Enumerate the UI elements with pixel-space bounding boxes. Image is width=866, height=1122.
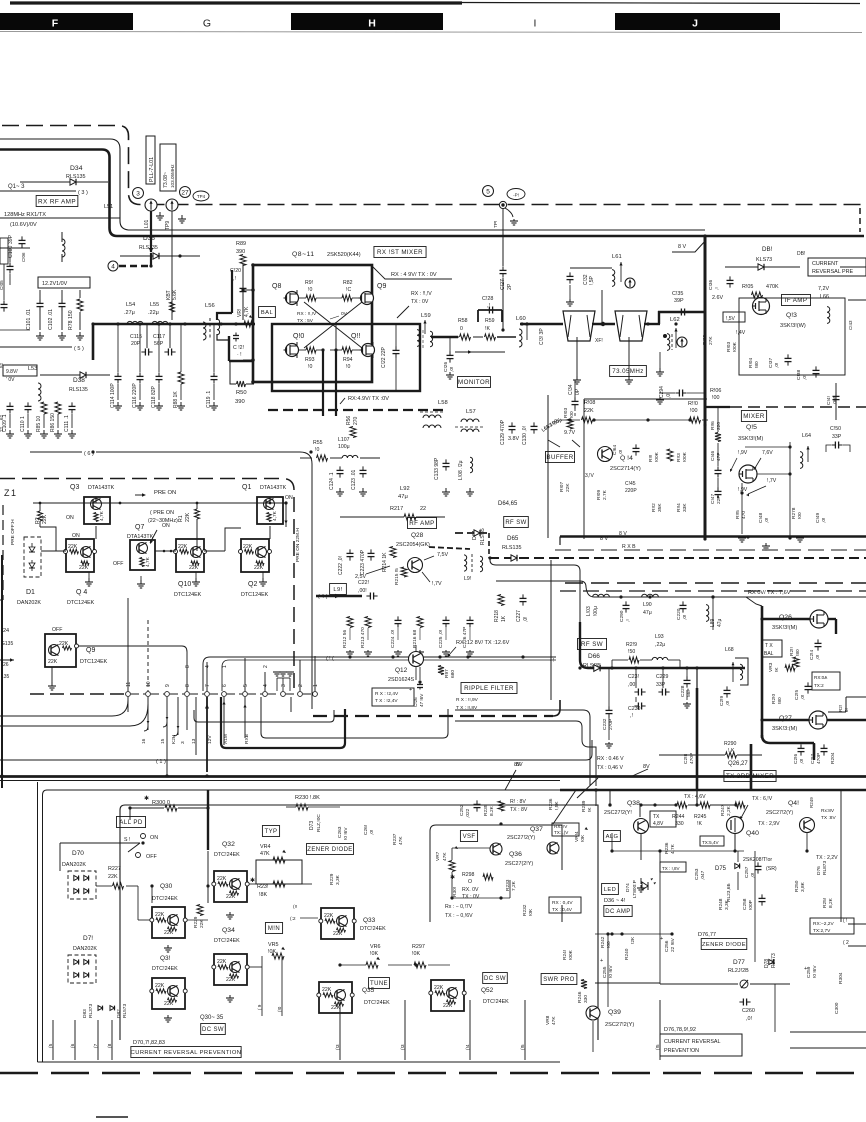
svg-text:L55: L55 [150,302,159,308]
svg-text:2.7K: 2.7K [602,489,608,500]
svg-text:8V: 8V [643,764,650,770]
svg-text:L64: L64 [802,433,811,439]
svg-text:R9!: R9! [305,280,313,286]
svg-text:8.2K: 8.2K [489,805,495,816]
svg-text:0: 0 [460,326,463,332]
svg-text:,!: ,! [233,276,236,282]
svg-text:R55: R55 [313,440,323,446]
svg-text:R2!0: R2!0 [771,694,777,704]
svg-text:!00K: !00K [732,341,738,352]
svg-text:R2!!: R2!! [789,647,795,656]
svg-text:47K: 47K [551,1016,557,1025]
svg-text:!80: !80 [754,361,760,368]
svg-text:OFF: OFF [146,854,157,860]
svg-text:,0!: ,0! [725,701,731,706]
svg-text:R250: R250 [794,880,800,892]
svg-text:3: 3 [180,741,186,744]
svg-text:390: 390 [236,249,245,255]
svg-text:22K: 22K [185,512,191,522]
svg-text:‹ !: ‹ ! [550,658,554,664]
svg-text:16: 16 [141,738,147,744]
svg-text:TX : 5V: TX : 5V [297,318,314,324]
svg-text:R236: R236 [664,842,670,854]
svg-text:R!04: R!04 [748,358,754,368]
svg-text:D7!: D7! [83,935,93,942]
svg-text:Rх:8V: Rх:8V [821,808,835,814]
svg-text:L!03: L!03 [586,606,592,616]
svg-text:C224 .0!: C224 .0! [390,630,396,648]
svg-text:470P: 470P [816,753,822,764]
svg-text:R246: R246 [577,991,583,1003]
svg-text:M!N: M!N [268,926,280,932]
svg-text:R97: R97 [444,669,450,678]
svg-text:2SC2054(GK): 2SC2054(GK) [396,542,430,548]
svg-text:!00μ: !00μ [593,606,599,616]
svg-text:R88 1K: R88 1K [173,391,179,408]
svg-text:R247: R247 [720,804,726,816]
svg-text:' 0V: ' 0V [6,377,15,383]
svg-text:L58: L58 [438,400,448,406]
svg-text:103.05MHz: 103.05MHz [170,164,175,188]
svg-text:3: 3 [136,190,140,197]
svg-text:MONITOR: MONITOR [458,379,490,386]
svg-text:TX : 0,4V: TX : 0,4V [552,907,573,913]
svg-text:L59: L59 [421,313,431,319]
svg-text:R!!0: R!!0 [688,401,698,407]
svg-text:C!48: C!48 [758,513,764,523]
svg-text:3,3K: 3,3K [335,874,341,885]
svg-text:A1M: A1M [223,734,229,744]
svg-text:4,7K: 4,7K [670,843,676,854]
svg-text:( 5 ): ( 5 ) [74,346,84,352]
svg-text:TX : 2,9V: TX : 2,9V [758,821,780,827]
svg-text:T X: T X [765,643,773,649]
svg-text:R!07: R!07 [559,482,565,492]
svg-text:RX:.!V: RX:.!V [554,824,568,829]
svg-text:REVERSAL PRE: REVERSAL PRE [812,269,854,275]
svg-text:R216 68: R216 68 [412,630,418,648]
svg-text:,!: ,! [714,287,720,290]
svg-text:H: H [368,18,376,30]
svg-text:2.6V: 2.6V [712,295,723,301]
svg-text:D36 ~ 4!: D36 ~ 4! [604,898,626,904]
svg-text:R230 !.8K: R230 !.8K [295,795,320,801]
svg-text:1: 1 [222,665,228,668]
svg-text:DC SW: DC SW [484,976,506,982]
svg-text:128MHz RX1/TX: 128MHz RX1/TX [4,212,46,218]
svg-text:L68: L68 [725,647,734,653]
svg-text:R304: R304 [838,972,844,984]
svg-text:C100 39P: C100 39P [8,234,14,258]
svg-text:TX : !,8V: TX : !,8V [662,866,680,871]
svg-text:22K: 22K [48,659,58,665]
svg-text:22K: 22K [79,565,89,571]
svg-text:R232: R232 [522,904,528,916]
svg-text:✱: ✱ [144,795,149,802]
svg-text:C!36: C!36 [708,280,714,290]
svg-text:R93: R93 [305,357,315,363]
svg-text:ON: ON [162,523,170,529]
svg-text:-P!: -P! [513,193,519,198]
svg-text:6: 6 [222,684,228,687]
svg-text:RLS135: RLS135 [69,387,88,393]
svg-text:2SC27!2(Y): 2SC27!2(Y) [766,810,793,816]
svg-text:,0!: ,0! [523,616,529,622]
svg-text:RF AMP: RF AMP [409,520,434,527]
svg-text:Q30: Q30 [160,883,173,890]
svg-text:CURRENT: CURRENT [812,261,839,267]
svg-text:DTC!24EK: DTC!24EK [360,926,386,932]
svg-text:!0K: !0K [580,834,586,842]
svg-text:C26!: C26! [363,825,369,835]
svg-text:DTC124EK: DTC124EK [80,659,108,665]
svg-text:+: + [600,958,603,964]
svg-text:C255: C255 [602,966,608,978]
svg-text:Q9: Q9 [377,283,386,290]
svg-text:L51: L51 [104,204,113,210]
svg-text:47μ: 47μ [717,618,723,627]
svg-text:3SK!3!(M): 3SK!3!(M) [738,436,763,442]
svg-text:8: 8 [185,684,191,687]
svg-text:9: 9 [165,684,171,687]
svg-text:Q!!: Q!! [351,333,360,340]
svg-text:RX !ST MIXER: RX !ST MIXER [377,249,423,256]
svg-text:Q3: Q3 [70,484,79,491]
svg-text:C2!9: C2!9 [719,696,725,706]
svg-text:L107: L107 [338,437,350,443]
svg-text:C!05: C!05 [0,280,4,290]
svg-text:R85 10: R85 10 [36,416,42,432]
svg-text:,0!: ,0! [821,518,827,523]
svg-text:Q !4: Q !4 [620,455,633,462]
svg-text:8 V: 8 V [619,531,627,537]
svg-text:4,7K: 4,7K [145,556,151,567]
svg-text:Q39: Q39 [608,1009,621,1016]
svg-text:DTC124EK: DTC124EK [241,592,269,598]
svg-text:R278: R278 [791,507,797,519]
svg-text:R204: R204 [830,752,836,764]
svg-text:( 9: ( 9 [257,1004,262,1010]
svg-text:C258: C258 [742,898,748,910]
svg-text:OFF: OFF [52,627,62,633]
svg-text:20P: 20P [131,341,141,347]
svg-text:C110 1: C110 1 [20,416,26,432]
svg-text:330: 330 [583,995,589,1003]
svg-text:2,2K: 2,2K [726,805,732,816]
svg-text:4: 4 [111,263,115,270]
svg-text:R237: R237 [392,833,398,845]
svg-text:R229: R229 [329,873,335,885]
svg-text:220P: 220P [625,488,637,494]
svg-text:!,5K: !,5K [554,801,560,810]
svg-text:R!!4: R!!4 [676,503,682,512]
svg-text:C!43: C!43 [848,320,853,330]
svg-text:(!4: (!4 [465,1044,471,1050]
svg-text:DB!: DB! [762,246,773,253]
svg-text:L93: L93 [655,634,664,640]
svg-text:Q!3: Q!3 [786,312,797,319]
svg-text:C102 .01: C102 .01 [48,309,54,330]
svg-text:+: + [409,687,412,693]
svg-text:RF SW: RF SW [581,641,603,648]
svg-text:,00!: ,00! [628,682,637,688]
svg-text:RX : 0,4V: RX : 0,4V [552,900,573,906]
svg-text:73.08~: 73.08~ [163,172,169,188]
svg-text:Q52: Q52 [481,987,494,994]
svg-text:( 3 ): ( 3 ) [78,190,88,196]
svg-text:.22μ: .22μ [148,310,159,316]
svg-text:+: + [660,936,663,942]
svg-text:PRE ON: PRE ON [154,490,176,496]
svg-text:TX : 2,2V: TX : 2,2V [816,855,838,861]
svg-text:Q37: Q37 [530,826,543,833]
svg-text:✱: ✱ [250,877,255,884]
svg-text:D65: D65 [507,535,519,542]
svg-text:ON: ON [72,533,80,539]
svg-text:BAL: BAL [764,651,774,657]
svg-text:2SD1624S: 2SD1624S [388,677,414,683]
svg-text:RLS!35: RLS!35 [480,528,486,545]
svg-text:C2!6: C2!6 [793,754,799,764]
svg-text:R233: R233 [505,879,511,891]
svg-text:R249: R249 [809,797,814,808]
svg-text:R227: R227 [108,866,121,872]
svg-text:DTC124EK: DTC124EK [67,600,95,606]
svg-text:ON: ON [66,515,74,521]
svg-text:5.6K: 5.6K [172,289,178,300]
svg-text:4,8V: 4,8V [653,821,664,827]
svg-text:,0!: ,0! [682,615,688,620]
svg-text:R1: R1 [178,515,184,522]
svg-text:VR8: VR8 [545,1015,551,1025]
svg-text:!0K: !0K [370,951,378,957]
svg-text:C229: C229 [656,674,669,680]
svg-text:4,7K: 4,7K [272,510,278,521]
svg-text:!0: !0 [308,287,312,293]
svg-text:R!08: R!08 [584,400,595,406]
svg-text:1: 1 [313,684,319,687]
svg-text:R!03: R!03 [563,408,569,418]
svg-text:L61: L61 [612,254,622,260]
svg-text:!00: !00 [606,941,612,948]
svg-text:R297: R297 [412,944,425,950]
svg-text:C259: C259 [806,966,812,978]
svg-text:8 V: 8 V [678,244,686,250]
svg-text:RF SW: RF SW [505,520,526,526]
svg-text:,022: ,022 [465,808,471,818]
svg-text:L57: L57 [466,409,476,415]
svg-text:(8: (8 [107,1043,113,1048]
svg-text:C!49: C!49 [815,513,821,523]
svg-text:!00P: !00P [748,900,754,910]
svg-text:73.05MHz: 73.05MHz [612,368,643,375]
svg-text:7,2V: 7,2V [818,286,829,292]
svg-text:,!: ,! [625,619,631,622]
svg-text:!K: !K [587,807,593,812]
svg-text:,0!: ,0! [369,830,375,835]
svg-text:!K: !K [774,667,780,672]
svg-text:(7: (7 [93,1043,99,1048]
svg-text:VR7: VR7 [435,851,441,861]
svg-text:C109 .1: C109 .1 [2,414,8,432]
svg-text:L54: L54 [126,302,135,308]
svg-text:(!!: (!! [293,904,297,910]
svg-text:TX : 4,6V: TX : 4,6V [684,794,706,800]
svg-text:!00K: !00K [682,451,688,462]
svg-text:!00K: !00K [654,451,660,462]
svg-text:22K: 22K [108,874,118,880]
svg-text:Q12: Q12 [395,667,408,674]
svg-text:1K: 1K [501,615,507,622]
svg-text:R59: R59 [485,318,495,324]
svg-text:!,9V: !,9V [738,450,748,456]
svg-text:C130 ,0!: C130 ,0! [522,426,528,445]
svg-text:3SK!3:(M): 3SK!3:(M) [772,726,797,732]
svg-text:(!3: (!3 [400,1044,406,1050]
svg-text:( !: ( ! [843,918,847,924]
svg-text:C!50: C!50 [830,426,841,432]
svg-text:R25!: R25! [822,898,828,908]
svg-text:RLS135: RLS135 [139,245,158,251]
svg-text:2SC27!2(Y): 2SC27!2(Y) [605,1022,634,1028]
svg-text:TP!: TP! [493,221,499,228]
svg-text:R78 150: R78 150 [68,310,74,330]
svg-text:L62: L62 [670,317,680,323]
svg-text:2SC2714(Y): 2SC2714(Y) [610,466,641,472]
svg-text:27K: 27K [708,336,714,345]
svg-text:C22!: C22! [358,580,369,586]
svg-text:C294: C294 [659,386,665,398]
svg-text:!,4V: !,4V [736,330,746,336]
svg-text:Q34: Q34 [222,927,235,934]
svg-text:C133 98P: C133 98P [434,457,440,480]
svg-text:22K: 22K [254,565,264,571]
svg-text:· !: · ! [237,352,242,358]
svg-text:R56: R56 [346,416,352,425]
svg-text:3,!V: 3,!V [585,473,595,479]
svg-text:TX : 0,46 V: TX : 0,46 V [597,765,623,771]
svg-text:,0!: ,0! [799,759,805,764]
svg-text:(!3: (!3 [335,1044,341,1050]
svg-text:C114 100P: C114 100P [110,383,116,408]
svg-text:R24!: R24! [562,950,568,960]
svg-text:C119 .1: C119 .1 [206,391,212,408]
svg-text:Q2: Q2 [248,581,257,588]
svg-text:!00: !00 [712,395,720,401]
svg-text:DTC!24EK: DTC!24EK [483,999,509,1005]
svg-text:0P: 0P [575,388,581,395]
svg-text:C2!4: C2!4 [809,650,815,660]
svg-text:D64,65: D64,65 [498,501,518,507]
svg-text:R236: R236 [548,798,554,810]
svg-text:DTC!24EK: DTC!24EK [214,938,240,944]
svg-text:R215 !5: R215 !5 [394,568,400,585]
svg-text:TP9: TP9 [165,221,171,230]
svg-text:R!!5: R!!5 [735,510,741,519]
svg-text:Z1: Z1 [4,488,18,498]
svg-text:TX: TX [653,814,660,820]
svg-text:TX:2: TX:2 [814,683,824,688]
svg-text:RX:4.9V/ TX :0V: RX:4.9V/ TX :0V [348,396,389,402]
svg-text:F: F [52,18,59,30]
svg-text:PLL-7-L01: PLL-7-L01 [149,157,155,182]
svg-text:!80: !80 [795,649,801,656]
svg-text:C252: C252 [459,804,465,816]
svg-text:S !: S ! [124,837,130,843]
svg-text:33P: 33P [656,682,666,688]
svg-text:RX RF AMP: RX RF AMP [38,198,76,205]
svg-text:!80: !80 [777,697,783,704]
svg-text:( PRE ON: ( PRE ON [150,510,174,516]
svg-text:Q10: Q10 [178,581,191,588]
svg-text:J: J [692,18,698,30]
svg-text:TX:!,(V: TX:!,(V [554,830,569,835]
svg-text:C23!: C23! [628,674,639,680]
svg-text:R212 56: R212 56 [342,630,348,648]
svg-text:R!02: R!02 [702,335,708,345]
svg-text:R30!: R30! [452,887,458,897]
svg-text:C253: C253 [694,868,700,880]
svg-text:5: 5 [243,684,249,687]
svg-text:C!34: C!34 [568,384,574,395]
svg-text:VR!4: VR!4 [574,831,580,842]
svg-text:R290: R290 [724,741,737,747]
svg-text:( 2: ( 2 [843,940,849,946]
svg-text:Q1: Q1 [242,484,251,491]
svg-text:RX:0Ѧ: RX:0Ѧ [814,675,828,680]
svg-text:MIXER: MIXER [743,413,765,420]
svg-text:D70: D70 [72,850,84,857]
svg-text:R229: R229 [193,916,199,928]
svg-text:3.8V: 3.8V [508,436,519,442]
svg-text:9.7V: 9.7V [564,430,575,436]
svg-text:R82: R82 [343,280,353,286]
svg-text:DC AMP: DC AMP [605,909,630,915]
svg-text:Q9: Q9 [86,647,95,654]
svg-text:R!09: R!09 [596,490,602,500]
svg-text:!00: !00 [690,408,698,414]
svg-text:R2!9: R2!9 [626,642,637,648]
svg-text:26: 26 [3,662,9,668]
svg-text:,00!: ,00! [358,588,367,594]
svg-text:2: 2 [298,684,304,687]
svg-text:Q35: Q35 [362,987,375,994]
svg-text:22 !6V: 22 !6V [670,937,676,952]
svg-text:11: 11 [126,682,132,687]
svg-text:9.8V/: 9.8V/ [6,369,18,375]
svg-text:XF!: XF! [595,338,603,344]
svg-text:R217: R217 [390,506,403,512]
svg-text:22K: 22K [42,514,48,524]
svg-text:TX :8V: TX :8V [821,815,836,821]
svg-text:DAN202K: DAN202K [62,862,86,868]
svg-text:!0: !0 [315,447,319,453]
svg-text:DTC!24EK: DTC!24EK [152,896,178,902]
svg-text:C257: C257 [744,866,750,878]
svg-text:,0!: ,0! [764,518,770,523]
svg-text:!00: !00 [797,512,803,519]
svg-text:ON: ON [285,495,293,501]
svg-text:,00!: ,00! [832,397,838,405]
svg-text:4: 4 [263,684,269,687]
svg-text:3,3K: 3,3K [724,899,730,910]
svg-text:4: 4 [205,665,211,668]
svg-text:C129 470P: C129 470P [500,419,506,445]
svg-text:39P: 39P [674,298,684,304]
svg-text:12.2V1/0V: 12.2V1/0V [42,281,68,287]
svg-text:!0K: !0K [412,951,420,957]
svg-text:Q3!: Q3! [160,955,171,962]
